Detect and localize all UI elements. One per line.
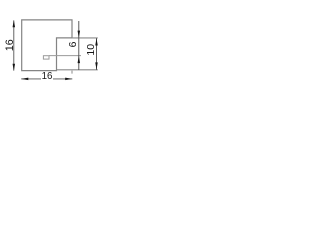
arrow up left-dim bbox=[13, 20, 16, 27]
extension line mid (y=55.6) bbox=[49, 55, 81, 57]
background bbox=[0, 0, 100, 100]
arrow left bottom-dim bbox=[21, 78, 28, 81]
svg-text:16: 16 bbox=[42, 71, 53, 82]
small box at left end of mid extension line bbox=[43, 56, 49, 59]
svg-text:10: 10 bbox=[85, 44, 97, 56]
arrow down tip at 69.6 bbox=[95, 62, 98, 69]
extension line bottom right bbox=[57, 69, 98, 71]
arrow down tip at 37.6 bbox=[78, 31, 81, 38]
extension line from notch top edge to right bbox=[72, 37, 98, 39]
dimension line for 10 (x=96.6) bbox=[96, 38, 98, 69]
arrow up tip at 55.9 bbox=[78, 56, 81, 63]
dimension line left (16) bbox=[13, 20, 15, 70]
svg-text:16: 16 bbox=[4, 39, 16, 51]
dimension line bottom (16) bbox=[21, 78, 41, 80]
arrow down left-dim bbox=[13, 64, 16, 71]
dimension line for 6 (x=78.7) bbox=[78, 21, 80, 70]
svg-text:6: 6 bbox=[67, 41, 79, 47]
arrow up tip at 38.2 bbox=[95, 38, 98, 45]
L-profile outline (16x16 square with bottom-right notch) bbox=[22, 20, 72, 71]
extension line below notch right (x=72.2) bbox=[71, 71, 73, 74]
arrow right bottom-dim bbox=[65, 78, 72, 81]
